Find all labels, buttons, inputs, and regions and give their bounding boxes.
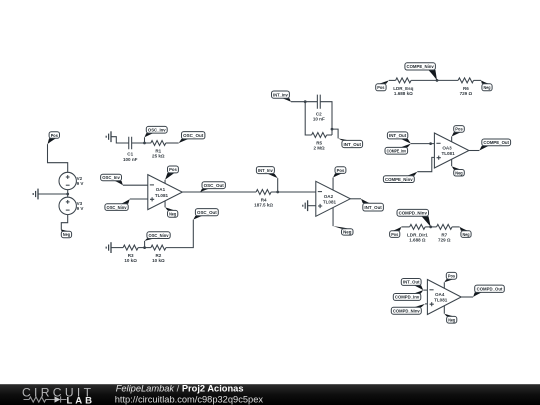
CircuitLab logo resistor-diode glyph bbox=[24, 396, 67, 402]
svg-text:Neg: Neg bbox=[448, 318, 455, 323]
node label OSC_Out (OA1 output) bbox=[200, 182, 225, 192]
wire left branch down bbox=[305, 102, 311, 135]
node label INT_Inv (feedback) bbox=[272, 91, 291, 102]
wire COMPD_Ninv to OA4 non-inverting input bbox=[425, 303, 427, 305]
svg-text:OSC_Inv: OSC_Inv bbox=[102, 175, 120, 180]
resistor LDR_Esq 1.688 kOhm bbox=[393, 78, 413, 96]
node label COMPD_Out bbox=[473, 285, 504, 297]
svg-text:INT_Out: INT_Out bbox=[389, 133, 407, 138]
op-amp OA4 TL081 bbox=[427, 280, 461, 315]
svg-text:9 V: 9 V bbox=[77, 206, 84, 211]
svg-text:LAB: LAB bbox=[67, 395, 93, 405]
svg-text:INT_Inv: INT_Inv bbox=[258, 168, 273, 173]
resistor R5 2 MOhm bbox=[312, 133, 327, 151]
svg-text:OA3: OA3 bbox=[442, 146, 452, 151]
wire ground to R3 bbox=[111, 247, 123, 249]
svg-text:10 kΩ: 10 kΩ bbox=[124, 258, 137, 263]
junction R3/R2 bbox=[143, 246, 146, 249]
svg-text:INT_Out: INT_Out bbox=[403, 280, 420, 285]
voltage source V3 9 V bbox=[59, 197, 83, 214]
wire OSC_Ninv to OA1 non-inverting input bbox=[130, 198, 148, 200]
svg-text:729 Ω: 729 Ω bbox=[438, 238, 451, 243]
wire OA3 output bbox=[469, 150, 479, 152]
svg-text:Neg: Neg bbox=[169, 212, 176, 217]
svg-text:TL081: TL081 bbox=[155, 193, 169, 198]
ground (supply) bbox=[33, 189, 38, 200]
svg-text:OA1: OA1 bbox=[156, 187, 166, 192]
svg-text:10 kΩ: 10 kΩ bbox=[152, 258, 165, 263]
node label OSC_Out (top) bbox=[179, 132, 205, 143]
wire COMPE_Ninv to OA3 non-inverting input bbox=[417, 157, 434, 171]
svg-text:1.688 kΩ: 1.688 kΩ bbox=[394, 91, 413, 96]
node label OSC_Inv (OA1 -) bbox=[101, 174, 123, 185]
node label Pos (LDR_Dir1) bbox=[390, 227, 402, 238]
svg-text:Neg: Neg bbox=[455, 171, 463, 176]
node label Neg (OA4) bbox=[444, 314, 457, 323]
op-amp OA3 TL081 bbox=[434, 133, 469, 168]
svg-text:9 V: 9 V bbox=[77, 181, 84, 186]
wire ground to C1 bbox=[111, 137, 129, 143]
svg-text:COMPD_Out: COMPD_Out bbox=[477, 287, 503, 292]
node label Neg (bottom divider) bbox=[460, 227, 472, 238]
svg-text:http://circuitlab.com/c98p32q9: http://circuitlab.com/c98p32q9c5pex bbox=[115, 395, 264, 405]
node label Pos (OA4) bbox=[444, 272, 456, 282]
svg-text:COMPE_Inv: COMPE_Inv bbox=[387, 149, 407, 154]
svg-text:2 MΩ: 2 MΩ bbox=[313, 146, 325, 151]
wire OA3 V- pin bbox=[451, 159, 453, 166]
resistor LDR_Dir1 1.688 Ohm bbox=[407, 224, 428, 242]
svg-text:Pos: Pos bbox=[377, 85, 385, 90]
svg-text:1.688 Ω: 1.688 Ω bbox=[409, 238, 426, 243]
wire OA2 V- pin bbox=[332, 207, 334, 226]
node label Neg (OA1) bbox=[165, 207, 178, 217]
node label INT_Inv (R4) bbox=[256, 167, 277, 179]
node label Pos (OA3) bbox=[452, 126, 465, 137]
svg-text:Pos: Pos bbox=[391, 232, 398, 237]
svg-text:COMPD_Ninv: COMPD_Ninv bbox=[399, 211, 428, 216]
junction R4/OA2 bbox=[276, 191, 279, 194]
junction LDR_Dir1/R7 bbox=[429, 226, 432, 229]
node label COMPE_Inv (OA3 -) bbox=[385, 144, 411, 154]
wire V3 to Neg bbox=[61, 215, 67, 230]
voltage source V2 9 V bbox=[59, 172, 83, 189]
svg-text:OA4: OA4 bbox=[435, 292, 445, 297]
ground (R3) bbox=[106, 242, 111, 253]
wire to OA4 inverting input bbox=[423, 289, 427, 291]
wire OA3 V+ pin bbox=[451, 137, 453, 142]
wire R2 up to OSC_Out label bbox=[166, 220, 193, 248]
node label INT_Out (OA3 -) bbox=[387, 132, 411, 144]
op-amp OA1 TL081 bbox=[148, 175, 183, 210]
node label COMPE_Ninv (OA3 +) bbox=[383, 172, 417, 183]
wire OA4 V- pin bbox=[443, 306, 445, 314]
svg-text:COMPE_Ninv: COMPE_Ninv bbox=[385, 177, 413, 182]
node label Pos (OA2) bbox=[333, 167, 346, 178]
wire Pos to LDR_Dir1 bbox=[401, 226, 409, 228]
wire R1 to OSC_Out label bbox=[166, 142, 179, 144]
capacitor C2 10 nF bbox=[313, 95, 325, 122]
svg-text:Neg: Neg bbox=[484, 85, 491, 90]
svg-text:OSC_Inv: OSC_Inv bbox=[148, 128, 166, 133]
svg-text:OSC_Ninv: OSC_Ninv bbox=[107, 205, 128, 210]
node label COMPD_Ninv (bottom divider) bbox=[397, 209, 431, 227]
svg-text:729 Ω: 729 Ω bbox=[460, 91, 473, 96]
ground (C1) bbox=[106, 131, 111, 142]
wire OA4 V+ pin bbox=[443, 282, 445, 288]
wire feedback tap to INT_Out bbox=[332, 129, 338, 138]
svg-text:COMPE_Out: COMPE_Out bbox=[483, 140, 509, 145]
junction feedback left bbox=[304, 100, 307, 103]
node label Neg (supply bottom) bbox=[61, 229, 71, 237]
node label OSC_Ninv (OA1 +) bbox=[105, 199, 130, 210]
svg-text:OSC_Out: OSC_Out bbox=[197, 210, 217, 215]
svg-text:INT_Inv: INT_Inv bbox=[273, 92, 288, 97]
svg-text:Neg: Neg bbox=[63, 232, 70, 237]
svg-text:Neg: Neg bbox=[463, 232, 470, 237]
wire node to OSC_Inv label bbox=[144, 137, 146, 143]
CircuitLab logo wordmark bbox=[22, 385, 92, 405]
svg-text:INT_Out: INT_Out bbox=[364, 205, 382, 210]
svg-text:Neg: Neg bbox=[343, 230, 352, 235]
node label INT_Out (feedback) bbox=[338, 138, 363, 147]
resistor R1 25 kOhm bbox=[151, 141, 166, 159]
wire Pos to LDR_Esq bbox=[389, 79, 396, 81]
node label Pos (LDR_Esq) bbox=[376, 80, 389, 90]
wire OA1 V+ pin bbox=[164, 180, 166, 184]
node label Neg (OA2) bbox=[333, 226, 353, 235]
wire R3 to R2 bbox=[138, 247, 151, 249]
wire OA2 V+ pin bbox=[332, 178, 334, 191]
node label OSC_Ninv (divider) bbox=[145, 232, 171, 241]
wire node to INT_Inv label bbox=[277, 178, 279, 192]
footer title text bbox=[115, 383, 264, 404]
svg-text:COMPD_Inv: COMPD_Inv bbox=[395, 295, 420, 300]
wire Pos to V2 bbox=[48, 144, 68, 172]
node label COMPD_Inv (OA4 -) bbox=[393, 290, 423, 300]
node label COMPE_Out bbox=[479, 139, 510, 151]
svg-text:Pos: Pos bbox=[51, 133, 59, 138]
junction supply midpoint bbox=[66, 193, 69, 196]
node label COMPE_Ninv (top divider) bbox=[405, 63, 437, 81]
svg-text:Pos: Pos bbox=[455, 127, 463, 132]
svg-text:COMPD_Ninv: COMPD_Ninv bbox=[393, 309, 420, 314]
wire OA1 output to OA2 (net OSC_Out) bbox=[182, 191, 256, 193]
resistor R3 10 kOhm bbox=[123, 245, 138, 263]
wire C2 to right branch bbox=[320, 102, 332, 135]
node label COMPD_Ninv (OA4 +) bbox=[391, 304, 425, 314]
wire to OA3 inverting input bbox=[411, 143, 435, 145]
svg-text:OA2: OA2 bbox=[324, 194, 334, 199]
wire LDR_Dir1 to R7 bbox=[425, 226, 436, 228]
node label Pos (OA1) bbox=[165, 166, 178, 180]
junction OA3 inverting bbox=[429, 142, 432, 145]
svg-text:Pos: Pos bbox=[448, 274, 456, 279]
svg-text:187.5 kΩ: 187.5 kΩ bbox=[254, 203, 273, 208]
footer bar bbox=[0, 384, 540, 405]
svg-text:OSC_Out: OSC_Out bbox=[183, 133, 204, 138]
node label INT_Out (OA2 output) bbox=[361, 199, 383, 211]
wire OA4 output bbox=[461, 296, 473, 298]
svg-text:25 kΩ: 25 kΩ bbox=[152, 154, 165, 159]
junction LDR_Esq/R6 bbox=[436, 79, 439, 82]
svg-text:INT_Out: INT_Out bbox=[344, 142, 362, 147]
wire R4 to OA2 inverting input bbox=[271, 191, 316, 193]
op-amp OA2 TL081 bbox=[316, 181, 351, 216]
svg-text:10 nF: 10 nF bbox=[313, 117, 325, 122]
wire OA1 V- pin bbox=[164, 201, 166, 208]
wire OSC_Inv to OA1 inverting input bbox=[123, 184, 148, 186]
node label Pos (supply top) bbox=[48, 132, 60, 144]
resistor R4 187.5 kOhm bbox=[254, 190, 273, 208]
wire INT_Inv to feedback node bbox=[291, 101, 317, 103]
capacitor C1 100 nF bbox=[123, 137, 138, 162]
ground (OA2 +) bbox=[303, 200, 308, 211]
node label OSC_Out (divider) bbox=[193, 209, 218, 220]
wire R5 to right branch bbox=[327, 134, 332, 136]
wire node to OSC_Ninv label bbox=[144, 241, 146, 248]
svg-text:TL081: TL081 bbox=[441, 151, 455, 156]
node label INT_Out (OA4 -) bbox=[401, 279, 423, 291]
svg-text:FelipeLambak / Proj2 Acionas: FelipeLambak / Proj2 Acionas bbox=[116, 383, 244, 393]
resistor R6 729 Ohm bbox=[458, 78, 473, 96]
wire OA2 output bbox=[350, 198, 361, 200]
wire ground to supply midpoint bbox=[38, 193, 68, 195]
node label OSC_Inv (top) bbox=[145, 126, 168, 137]
resistor R2 10 kOhm bbox=[151, 245, 166, 263]
resistor R7 729 Ohm bbox=[437, 224, 452, 242]
svg-text:TL081: TL081 bbox=[434, 298, 448, 303]
wire C1 to node OSC_Inv bbox=[132, 142, 151, 144]
wire LDR_Esq to R6 bbox=[411, 79, 458, 81]
svg-text:OSC_Out: OSC_Out bbox=[204, 183, 225, 188]
wire V2 to V3 bbox=[67, 190, 69, 198]
svg-text:OSC_Ninv: OSC_Ninv bbox=[149, 233, 170, 238]
svg-text:100 nF: 100 nF bbox=[123, 157, 138, 162]
junction feedback right bbox=[331, 128, 334, 131]
svg-text:Pos: Pos bbox=[337, 168, 345, 173]
wire ground to OA2 non-inverting input bbox=[308, 205, 316, 207]
svg-text:Pos: Pos bbox=[169, 167, 177, 172]
svg-text:COMPE_Ninv: COMPE_Ninv bbox=[407, 64, 435, 69]
junction C1/R1 bbox=[143, 142, 146, 145]
node label Neg (OA3) bbox=[452, 166, 465, 176]
svg-text:TL081: TL081 bbox=[323, 200, 337, 205]
wire R6 to Neg bbox=[474, 79, 481, 81]
node label Neg (top divider) bbox=[481, 80, 492, 90]
wire R7 to Neg bbox=[452, 226, 460, 228]
